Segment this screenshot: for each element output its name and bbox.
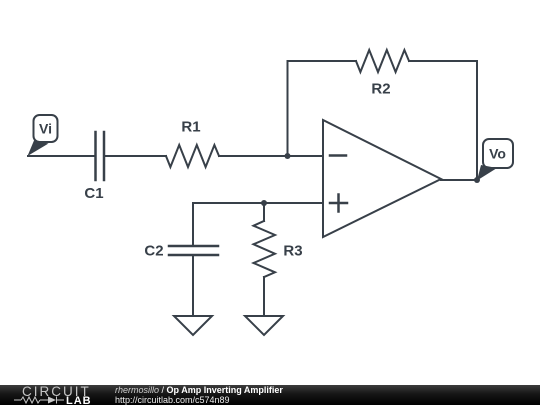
capacitor C1	[96, 132, 105, 180]
flag Vi box	[34, 115, 58, 142]
wire input from Vi to C1	[28, 155, 95, 157]
op-amp plus sign	[330, 195, 347, 212]
svg-text:Vi: Vi	[39, 121, 52, 137]
wire plus input	[193, 202, 323, 204]
svg-text:LAB: LAB	[66, 395, 92, 405]
svg-text:rhermosillo / Op Amp Inverting: rhermosillo / Op Amp Inverting Amplifier	[115, 385, 283, 395]
resistor R1	[166, 145, 219, 167]
wire R2 to right corner	[409, 60, 477, 62]
node B junction dot (non-inverting input)	[261, 200, 267, 206]
svg-text:R2: R2	[371, 81, 390, 98]
ground under R3	[245, 316, 283, 335]
ground under C2	[174, 316, 212, 335]
flag Vi tail	[28, 141, 49, 157]
wire feedback vertical left	[287, 61, 289, 156]
capacitor C2	[169, 246, 218, 255]
wire R1 to op-amp minus input	[219, 155, 323, 157]
flag Vo tail	[477, 165, 497, 181]
wire feedback vertical right	[476, 61, 478, 180]
footer bar	[0, 385, 540, 405]
svg-text:R3: R3	[283, 243, 302, 260]
wire C2 to ground	[192, 255, 194, 316]
wire R3 to ground	[263, 277, 265, 316]
wire node to R3	[263, 203, 265, 221]
svg-text:C1: C1	[84, 185, 103, 202]
logo schematic line with resistor and diode	[14, 397, 64, 404]
svg-text:Vo: Vo	[489, 146, 506, 162]
op-amp minus sign	[330, 154, 346, 157]
svg-text:http://circuitlab.com/c574n89: http://circuitlab.com/c574n89	[115, 395, 230, 405]
svg-text:R1: R1	[181, 119, 200, 136]
flag Vo box	[483, 139, 513, 168]
wire node to C2	[192, 203, 194, 246]
wire op-amp output	[441, 179, 477, 181]
logo diode triangle	[48, 397, 56, 404]
resistor R2	[356, 50, 409, 72]
svg-text:C2: C2	[144, 243, 163, 260]
node Vo junction dot (output)	[474, 177, 480, 183]
wire C1 to R1	[104, 155, 166, 157]
node A junction dot (inverting input)	[285, 153, 291, 159]
wire feedback top left to R2	[288, 60, 357, 62]
resistor R3	[254, 221, 276, 277]
op-amp U1	[323, 120, 441, 237]
